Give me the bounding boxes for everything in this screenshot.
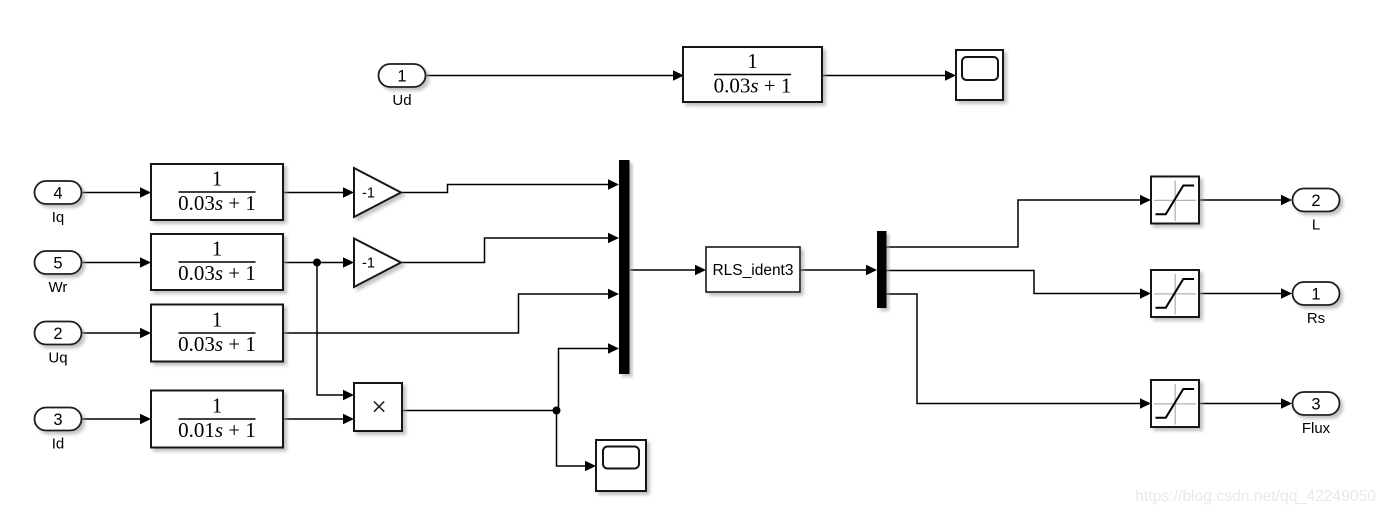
svg-text:1: 1: [212, 167, 223, 191]
svg-text:1: 1: [212, 237, 223, 261]
svg-text:https://blog.csdn.net/qq_42249: https://blog.csdn.net/qq_42249050: [1135, 488, 1376, 505]
svg-text:Rs: Rs: [1307, 310, 1325, 327]
svg-text:0.01s + 1: 0.01s + 1: [178, 418, 256, 442]
svg-text:Iq: Iq: [52, 209, 65, 226]
svg-text:3: 3: [53, 411, 62, 429]
svg-text:Wr: Wr: [49, 279, 68, 296]
svg-text:-1: -1: [362, 186, 375, 202]
svg-text:-1: -1: [362, 256, 375, 272]
svg-text:Id: Id: [52, 436, 65, 453]
svg-text:5: 5: [53, 255, 62, 273]
svg-text:L: L: [1312, 217, 1320, 234]
svg-text:Ud: Ud: [392, 92, 411, 109]
svg-text:0.03s + 1: 0.03s + 1: [178, 261, 256, 285]
svg-text:1: 1: [212, 308, 223, 332]
svg-text:Flux: Flux: [1302, 420, 1331, 437]
svg-text:2: 2: [1311, 192, 1320, 210]
svg-text:1: 1: [397, 68, 406, 86]
svg-text:0.03s + 1: 0.03s + 1: [178, 332, 256, 356]
svg-text:1: 1: [1311, 286, 1320, 304]
svg-text:RLS_ident3: RLS_ident3: [712, 262, 793, 279]
svg-text:0.03s + 1: 0.03s + 1: [178, 191, 256, 215]
svg-text:0.03s + 1: 0.03s + 1: [714, 73, 792, 97]
svg-text:3: 3: [1311, 396, 1320, 414]
svg-text:Uq: Uq: [48, 350, 67, 367]
svg-text:4: 4: [53, 185, 62, 203]
svg-text:1: 1: [212, 394, 223, 418]
svg-text:1: 1: [747, 49, 758, 73]
svg-text:2: 2: [53, 325, 62, 343]
